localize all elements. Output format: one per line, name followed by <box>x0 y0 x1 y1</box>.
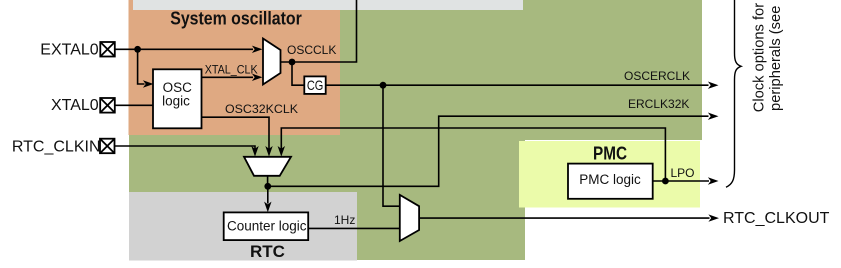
wire XTAL0 to OSC logic <box>115 104 153 106</box>
wire XTAL_CLK <box>202 76 254 78</box>
clock gate CG box <box>304 76 325 94</box>
wire OSCCLK to MCG (cut off top) <box>281 0 357 62</box>
arrow into mux U2 left <box>251 146 258 157</box>
system oscillator block (orange) <box>129 0 341 135</box>
svg-text:OSC32KCLK: OSC32KCLK <box>225 102 298 116</box>
svg-text:EXTAL0: EXTAL0 <box>40 41 99 58</box>
node OSCCLK <box>289 59 296 66</box>
svg-text:OSCERCLK: OSCERCLK <box>624 69 690 83</box>
arrow into mux U1 input 2 <box>252 74 263 81</box>
arrow into mux U2 right <box>278 146 285 157</box>
svg-text:PMC: PMC <box>593 143 627 163</box>
pad EXTAL0 <box>100 42 115 57</box>
peripheral-clock green block (top) <box>340 0 702 140</box>
svg-text:RTC_CLKOUT: RTC_CLKOUT <box>723 210 830 227</box>
arrow into mux U2 middle <box>265 146 272 157</box>
svg-text:RTC_CLKIN: RTC_CLKIN <box>12 139 101 156</box>
svg-text:Clock options for: Clock options for <box>751 3 767 112</box>
node OSCERCLK branch <box>380 82 387 89</box>
wire OSCCLK to CG <box>292 62 304 85</box>
wire RTC_CLKIN to mux U2 <box>115 146 256 149</box>
mux U2 (ERCLK32K select, points down) <box>244 157 291 176</box>
arrow OSCERCLK <box>708 82 719 89</box>
arrow into Counter logic <box>264 202 271 213</box>
arrow LPO <box>708 177 719 184</box>
pad RTC_CLKIN <box>100 139 115 154</box>
svg-text:System oscillator: System oscillator <box>170 8 302 28</box>
wire down to Counter logic <box>267 186 269 203</box>
svg-text:CG: CG <box>307 77 324 93</box>
wire LPO return to mux U2 <box>281 128 665 181</box>
MCG block remnant (gray strip, cut off) <box>133 0 523 10</box>
brace grouping peripheral clocks <box>726 0 741 187</box>
svg-text:1Hz: 1Hz <box>334 213 355 227</box>
node ERCLK32K <box>264 183 271 190</box>
wire mux U2 output <box>267 176 269 187</box>
svg-text:RTC: RTC <box>250 242 285 261</box>
wire RTC_CLKOUT <box>419 217 709 219</box>
wire OSCERCLK <box>326 84 709 86</box>
arrow ERCLK32K <box>708 113 719 120</box>
pad XTAL0 <box>100 98 115 113</box>
arrow into OSC logic <box>143 80 154 87</box>
node EXTAL0 branch <box>134 46 141 53</box>
svg-text:logic: logic <box>162 93 190 108</box>
mux U1 (system oscillator clock mux) <box>263 39 281 85</box>
mux U3 (RTC_CLKOUT select) <box>400 195 419 241</box>
wire LPO <box>653 180 709 182</box>
svg-text:peripherals (see: peripherals (see <box>768 6 784 111</box>
arrow into mux U1 input 1 <box>252 46 263 53</box>
wire EXTAL0 to mux U1 <box>114 48 253 50</box>
OSC logic box <box>153 69 202 128</box>
svg-text:OSCCLK: OSCCLK <box>287 43 336 57</box>
peripheral-clock green block (bottom) <box>129 135 525 260</box>
wire OSCERCLK branch down to RTC_CLKOUT mux <box>383 85 400 206</box>
RTC block (gray) <box>129 192 357 261</box>
node LPO <box>662 178 669 185</box>
svg-text:Counter logic: Counter logic <box>227 219 307 234</box>
PMC block (yellow) <box>519 141 700 208</box>
wire OSC32KCLK to mux U2 <box>202 117 270 149</box>
wire 1Hz to mux U3 <box>309 227 400 229</box>
arrow RTC_CLKOUT <box>708 214 719 221</box>
svg-text:ERCLK32K: ERCLK32K <box>628 97 689 111</box>
svg-text:XTAL0: XTAL0 <box>51 97 99 114</box>
svg-text:XTAL_CLK: XTAL_CLK <box>205 63 258 77</box>
PMC logic box <box>568 164 653 199</box>
Counter logic box <box>224 212 309 240</box>
wire ERCLK32K <box>268 116 709 186</box>
svg-text:LPO: LPO <box>671 166 695 180</box>
wire EXTAL0 branch to OSC logic <box>138 49 145 84</box>
svg-text:PMC logic: PMC logic <box>579 172 641 187</box>
